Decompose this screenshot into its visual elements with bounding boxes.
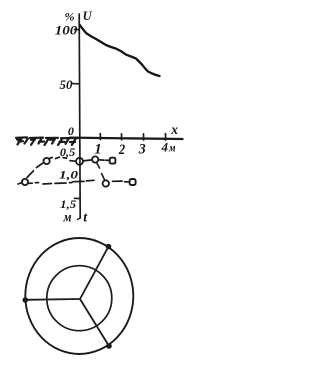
circle marker at 1.2m depth 1.0	[103, 180, 109, 186]
svg-text:2: 2	[118, 142, 125, 158]
x tick 2	[121, 134, 123, 140]
y axis bottom hook	[78, 218, 81, 220]
tick 100	[75, 28, 80, 30]
connector line to circle on 1.0 row	[102, 174, 105, 181]
svg-text:100: 100	[55, 24, 78, 38]
y axis U above, t below	[79, 14, 80, 218]
dashed rising profile left of axis	[18, 157, 75, 184]
x tick 4	[165, 134, 167, 140]
square marker at 2.4m depth 1.0	[130, 179, 136, 185]
svg-text:0: 0	[68, 124, 74, 138]
svg-text:t: t	[83, 211, 88, 226]
spoke to lower right	[80, 299, 109, 346]
inner circle	[47, 266, 112, 331]
svg-text:м: м	[63, 209, 72, 224]
svg-text:U: U	[83, 9, 93, 23]
tick 50	[73, 83, 80, 85]
solid 0.5m segment right of axis	[83, 160, 92, 161]
dot upper right	[106, 244, 112, 250]
circle marker at 0.8m	[92, 156, 98, 162]
dashes to square	[100, 159, 109, 162]
svg-text:0,5: 0,5	[60, 147, 76, 159]
svg-text:%: %	[65, 10, 75, 24]
svg-text:м: м	[168, 141, 175, 155]
svg-text:1,0: 1,0	[59, 167, 78, 181]
circle marker on axis at 0.5	[76, 158, 83, 165]
svg-text:3: 3	[138, 141, 146, 157]
svg-text:50: 50	[60, 77, 74, 92]
svg-text:x: x	[170, 122, 178, 137]
svg-text:4: 4	[160, 140, 168, 155]
dashed 1.0m line	[29, 180, 128, 184]
ground hatching band left of origin	[16, 137, 78, 145]
connector line falling from circle	[96, 162, 99, 168]
dot left	[23, 297, 29, 303]
tick 1.5 depth	[75, 197, 80, 199]
spoke to left	[25, 298, 80, 301]
U(x) decay curve	[80, 25, 160, 76]
square marker at 1.5m depth 0.5	[110, 158, 116, 164]
x axis	[70, 138, 183, 139]
svg-text:1: 1	[94, 141, 102, 157]
dot lower right	[106, 343, 112, 349]
x tick 1	[99, 134, 101, 140]
bottom diagram outer circle	[25, 238, 133, 354]
circle marker mid left	[44, 158, 50, 164]
spoke to upper right	[80, 247, 109, 300]
x tick 3	[143, 134, 145, 140]
circle marker far left on 1.0 line	[22, 179, 28, 185]
